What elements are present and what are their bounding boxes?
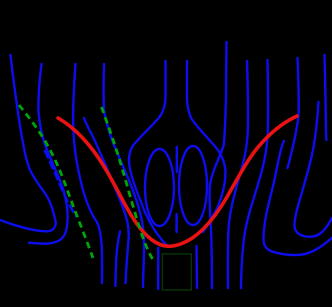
right line v2 [228,61,248,288]
field line L3 [73,64,102,283]
right hook C [294,102,332,237]
center divider bottom [175,214,177,232]
dark green box [162,254,191,290]
field line L2 with hook [29,64,68,244]
green dashed slow shock B [102,107,153,259]
inner left lobe [145,149,174,226]
center right vertical [187,61,225,232]
right line v1 [210,42,227,288]
field line L3b [84,118,129,283]
bottom vertical f [195,246,198,288]
bottom vertical e [157,248,160,289]
green dashed slow shock A [19,105,93,258]
inner right lobe [179,146,207,225]
center divider top [176,147,178,172]
right line v5 [325,55,327,140]
right line v3 [241,60,268,288]
blue dashed line BD [45,151,76,216]
center left vertical [129,61,166,245]
right hook B [263,141,332,255]
field line L4 [104,64,144,287]
field line L1 with hook [0,55,56,231]
bottom vertical b [115,232,120,287]
right line v4 with hook [288,58,299,168]
red curve (separatrix) [58,116,297,246]
